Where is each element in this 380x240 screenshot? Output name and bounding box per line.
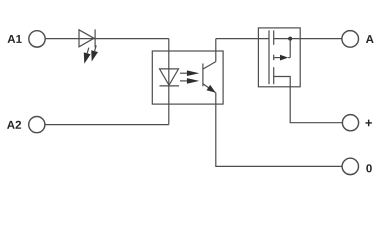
terminal 0 — [342, 158, 358, 174]
terminal + — [342, 115, 358, 131]
optocoupler phototransistor — [203, 62, 216, 93]
LED D1 (input indicator) — [79, 29, 98, 63]
junction dot drain node — [288, 37, 292, 41]
wire source to + terminal — [274, 77, 343, 123]
MOSFET channel bar (3 segments) — [273, 30, 275, 84]
wire A1 drop to optocoupler anode — [168, 39, 170, 125]
optocoupler U1 box — [152, 51, 223, 104]
svg-text:A: A — [366, 34, 374, 46]
wire collector riser — [215, 39, 217, 62]
terminal A — [342, 31, 359, 48]
terminal A1 — [29, 31, 45, 47]
MOSFET gate bar — [268, 30, 270, 84]
wire A2 row — [45, 124, 169, 126]
svg-text:A1: A1 — [7, 34, 22, 46]
MOSFET Q1 box — [258, 28, 300, 87]
MOSFET body connection with arrow — [274, 39, 291, 61]
optocoupler LED — [160, 69, 180, 86]
wire drain to terminal A — [274, 38, 342, 40]
optocoupler light arrow 2 — [180, 78, 199, 84]
terminal A2 — [29, 117, 45, 133]
svg-text:0: 0 — [366, 163, 372, 175]
wire A1 row — [45, 38, 169, 40]
svg-text:+: + — [365, 115, 373, 130]
wire gate feed — [216, 38, 269, 40]
svg-text:A2: A2 — [7, 120, 22, 132]
optocoupler light arrow 1 — [180, 70, 199, 76]
wire emitter drop to 0 row — [216, 93, 342, 167]
